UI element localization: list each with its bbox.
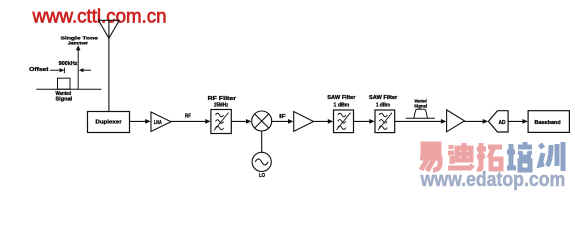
svg-text:Offset: Offset	[29, 67, 49, 73]
svg-text:www.cttl.com.cn: www.cttl.com.cn	[32, 7, 167, 28]
svg-text:Duplexer: Duplexer	[95, 120, 121, 126]
svg-text:SAW Filter: SAW Filter	[369, 95, 397, 101]
svg-text:SAW Filter: SAW Filter	[327, 95, 355, 101]
svg-text:AD: AD	[499, 120, 506, 126]
svg-text:LO: LO	[259, 173, 265, 179]
svg-text:Baseband: Baseband	[535, 120, 561, 126]
svg-text:IF: IF	[279, 114, 286, 120]
svg-text:Jammer: Jammer	[68, 40, 89, 45]
svg-text:25MHz: 25MHz	[214, 103, 229, 109]
svg-text:RF Filter: RF Filter	[208, 96, 236, 102]
svg-text:www.edatop.com: www.edatop.com	[420, 169, 565, 191]
svg-text:LNA: LNA	[154, 120, 162, 126]
svg-text:1 dBm: 1 dBm	[334, 102, 350, 108]
svg-text:Signal: Signal	[414, 103, 427, 108]
svg-text:900kHz: 900kHz	[59, 61, 78, 67]
svg-text:Signal: Signal	[56, 96, 73, 102]
svg-text:RF: RF	[185, 114, 192, 120]
svg-text:1 dBm: 1 dBm	[376, 102, 391, 108]
